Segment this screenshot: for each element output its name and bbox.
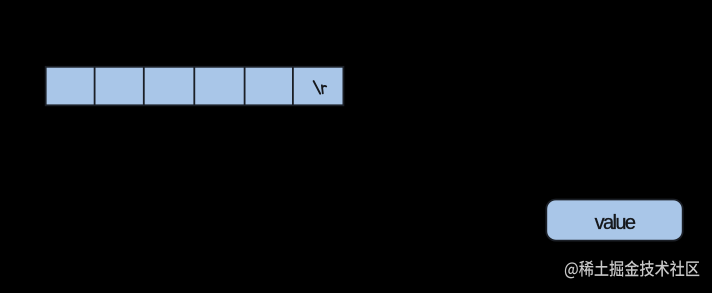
- svg-text:value: value: [595, 212, 636, 234]
